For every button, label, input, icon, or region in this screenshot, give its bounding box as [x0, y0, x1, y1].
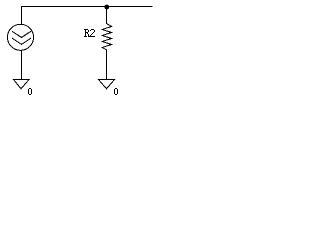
resistor R2 zigzag: [102, 21, 111, 51]
wire source bottom to left ground: [21, 51, 23, 80]
label R2 : glyph R (pixel glyph): [84, 29, 90, 37]
ground symbol right (triangle): [99, 80, 115, 89]
current source chevron 1: [12, 31, 31, 37]
label 0 right ground (pixel glyph): [114, 88, 118, 95]
current source I1 circle: [7, 24, 33, 50]
label R2 : glyph 2 (pixel glyph): [90, 29, 95, 37]
wire junction down to R2 top: [106, 6, 108, 21]
wire left vertical from corner down to source top: [21, 6, 23, 25]
label 0 left ground (pixel glyph): [28, 88, 32, 95]
wire top horizontal: [21, 6, 153, 8]
wire R2 bottom to right ground: [106, 50, 108, 79]
ground symbol left (triangle): [14, 80, 30, 89]
current source chevron 2: [12, 38, 31, 44]
node junction dot: [104, 5, 109, 10]
